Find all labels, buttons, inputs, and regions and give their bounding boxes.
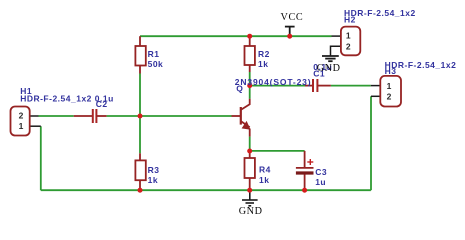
transistor Q base pin (232, 115, 241, 117)
junction node R2-top (247, 34, 252, 39)
svg-text:2N3904(SOT-23): 2N3904(SOT-23) (235, 77, 312, 87)
svg-text:2: 2 (19, 110, 24, 120)
svg-text:R2: R2 (258, 49, 270, 59)
svg-text:1k: 1k (148, 175, 158, 185)
capacitor C3 plus sign (307, 159, 313, 165)
pin line H1 pin1 (30, 125, 41, 127)
svg-text:HDR-F-2.54_1x2: HDR-F-2.54_1x2 (20, 94, 92, 104)
svg-text:R3: R3 (148, 165, 160, 175)
wire bottom ground rail (41, 189, 371, 191)
svg-text:C3: C3 (315, 167, 327, 177)
svg-text:1k: 1k (258, 59, 268, 69)
wire R1 top lead (139, 36, 141, 46)
junction node R4 ground (247, 188, 252, 193)
wire top rail VCC net (140, 35, 332, 37)
svg-text:H3: H3 (385, 66, 397, 76)
capacitor C1 plates (313, 79, 317, 92)
capacitor C2 plates (93, 109, 97, 123)
junction node C3 ground (302, 188, 307, 193)
pin line H3 pin1 (371, 85, 381, 87)
svg-text:GND: GND (317, 63, 341, 74)
transistor Q base bar (240, 107, 242, 125)
resistor R3 (135, 160, 145, 180)
svg-text:H2: H2 (344, 14, 356, 24)
svg-text:1: 1 (19, 121, 24, 131)
svg-text:2: 2 (387, 91, 392, 101)
wire H3 pin2 vertical (370, 96, 372, 190)
header H1 body (11, 107, 30, 136)
wire R2 to collector node (249, 72, 251, 99)
wire R2 bottom lead (249, 65, 251, 72)
wire R1 bottom lead (139, 66, 141, 74)
junction node emitter (247, 149, 252, 154)
svg-text:1: 1 (346, 31, 351, 41)
wire H1 pin2 to C2 (39, 115, 74, 117)
wire C2 to base (107, 115, 232, 117)
svg-text:Q: Q (236, 84, 243, 94)
header H3 body (380, 76, 401, 107)
header H2 body (341, 27, 360, 56)
wire C1 to H3 (331, 85, 371, 87)
power symbol VCC (285, 27, 295, 36)
wire R2 top lead (249, 36, 251, 46)
transistor Q emitter pin (241, 121, 250, 127)
junction node mid base (138, 114, 143, 119)
resistor R4 (245, 158, 255, 178)
resistor R2 (245, 46, 255, 65)
svg-text:1: 1 (387, 81, 392, 91)
ground symbol under H2 (322, 56, 339, 61)
svg-text:R4: R4 (259, 164, 271, 174)
wire C3 bottom lead (304, 175, 306, 191)
junction node VCC (287, 34, 292, 39)
svg-text:1k: 1k (259, 175, 269, 185)
pin line H2 pin2 + ground lead (331, 46, 341, 56)
wire emitter to node (249, 137, 251, 151)
wire R1 to mid node (139, 74, 141, 117)
svg-text:C2: C2 (96, 99, 108, 109)
wire C2 left lead (74, 115, 93, 117)
transistor Q collector pin (241, 99, 250, 110)
svg-text:50k: 50k (148, 59, 164, 69)
svg-text:1u: 1u (315, 177, 326, 187)
wire C2 right lead (96, 115, 106, 117)
wire R3 bottom lead (139, 180, 141, 190)
wire C3 top lead (304, 151, 306, 167)
svg-text:R1: R1 (148, 49, 160, 59)
pin line H2 pin1 (332, 35, 341, 37)
capacitor C3 bottom plate (296, 171, 314, 174)
wire H1 pin1 vertical (40, 126, 42, 190)
wire emitter node to C3 (250, 150, 305, 152)
junction node R3 ground (138, 188, 143, 193)
wire C1 right lead (317, 85, 331, 87)
resistor R1 (135, 46, 145, 66)
pin line H3 pin2 (371, 95, 380, 97)
wire mid node down to R3 (139, 116, 141, 153)
ground symbol bottom GND (242, 190, 258, 206)
transistor Q emitter arrow (242, 121, 251, 130)
svg-text:VCC: VCC (281, 12, 304, 23)
junction node collector-C1 (247, 83, 252, 88)
capacitor C3 top plate (296, 167, 314, 169)
wire R4 bottom lead (249, 178, 251, 190)
wire emitter node to R4 (249, 151, 251, 158)
svg-text:GND: GND (239, 206, 263, 217)
wire C1 left lead (305, 85, 313, 87)
svg-text:2: 2 (346, 41, 351, 51)
wire collector node to C1 (250, 85, 305, 87)
wire R3 top lead (139, 153, 141, 160)
pin line H1 pin2 (30, 115, 39, 117)
wire emitter lead down (249, 129, 251, 137)
